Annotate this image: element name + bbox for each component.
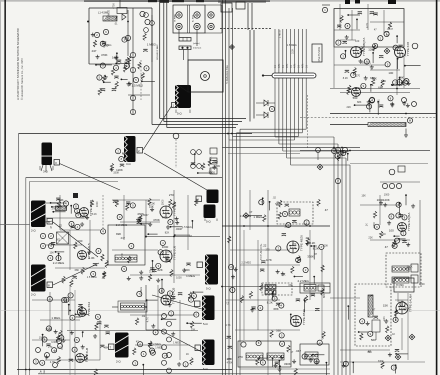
part callout tuner-p35 <box>341 54 346 59</box>
capacitor C-ifstrip61 <box>228 346 232 348</box>
part callout callout 22 <box>103 29 108 34</box>
ground osc-col-g4 <box>401 81 405 85</box>
resistor R-midrow110b5 <box>208 159 211 166</box>
svg-text:330K: 330K <box>284 362 291 366</box>
svg-text:.01: .01 <box>114 23 118 26</box>
junction midcol-lower-j1 <box>121 79 123 81</box>
resistor R-videoC42 <box>172 202 175 209</box>
ground videoC-g2 <box>156 278 160 282</box>
part callout botright-p13 <box>393 317 398 322</box>
svg-text:4.7K: 4.7K <box>225 324 230 327</box>
part callout botmid-p0 <box>162 353 167 358</box>
svg-text:47: 47 <box>325 208 329 212</box>
ground botleft-g33 <box>70 331 74 335</box>
wire sndgrid-0 <box>46 217 84 219</box>
junction soundL-j0 <box>58 253 60 255</box>
ground botmid-g6 <box>168 303 172 307</box>
wire bottomstrip-w8 <box>279 366 281 375</box>
junction rightrow-j11 <box>354 104 356 106</box>
wire tuner-w22 <box>396 36 398 43</box>
bundle cable sleeve <box>272 73 316 78</box>
wire tunergrid-9 <box>351 10 353 40</box>
part callout midrow110a-p4 <box>119 157 124 162</box>
ground midcol-lower-g0 <box>128 82 132 86</box>
resistor R-ifstrip25 <box>228 236 231 243</box>
svg-text:3.3K: 3.3K <box>398 301 403 304</box>
junction ifstrip-j79 <box>262 197 264 199</box>
junction tuner-j8 <box>347 14 349 16</box>
resistor R-botleft34 <box>84 354 87 361</box>
part callout stair_parts-p3 <box>332 148 337 153</box>
junction tuner-j32 <box>392 84 394 86</box>
bundle wire 2 horizontal <box>279 143 338 145</box>
ground ifstrip2-g6 <box>305 242 309 246</box>
tp lead <box>249 215 263 217</box>
shield box horizontal y124.5 <box>152 124 238 126</box>
resistor R-botmid28 <box>191 321 194 328</box>
svg-text:68K: 68K <box>378 85 383 89</box>
ground topleft-lower-g8 <box>126 82 130 86</box>
wire tuner-w4 <box>397 59 399 69</box>
svg-text:68K: 68K <box>323 293 326 298</box>
svg-text:100: 100 <box>309 356 314 360</box>
wire botmid-w16 <box>142 365 144 375</box>
ground rightrow-g5 <box>402 101 406 105</box>
tube V9 audio out <box>398 223 407 232</box>
part callout mast callout <box>322 7 327 12</box>
svg-text:47K: 47K <box>278 63 281 68</box>
long wire y226 <box>222 225 330 227</box>
wire ifgrid-1 <box>240 264 300 266</box>
resistor R-topleft7 <box>123 65 126 72</box>
wire ifstrip-w79 <box>262 198 264 205</box>
dashed drop x176 <box>175 139 177 168</box>
bundle wire 5 vertical <box>290 29 292 165</box>
shield box vertical right x250 <box>249 30 251 122</box>
circle 147 <box>145 19 150 24</box>
wire audgrid-0 <box>360 204 400 206</box>
part callout botleft-p0 <box>56 338 61 343</box>
svg-text:1 MEG: 1 MEG <box>147 43 157 47</box>
part callout tuner-p41 <box>351 72 356 77</box>
part callout botmid-p32 <box>194 312 199 317</box>
bundle wire 6 down <box>228 140 230 375</box>
T7 label box <box>197 262 203 268</box>
svg-text:5-Ω: 5-Ω <box>203 322 208 326</box>
resistor R-videoC14 <box>126 203 129 210</box>
capacitor C-audio18 <box>402 241 406 243</box>
part callout botmid-p17 <box>149 348 154 353</box>
ground bottomstrip-g7 <box>315 360 319 364</box>
wire botleft-w4 <box>68 305 70 316</box>
tube V12 horiz osc <box>76 354 85 363</box>
T10 label box <box>109 344 115 350</box>
ground rightrow-g9 <box>406 103 410 107</box>
svg-text:.001: .001 <box>377 99 380 104</box>
svg-text:H OSC: H OSC <box>396 284 404 287</box>
svg-text:1000: 1000 <box>161 199 164 205</box>
wire rightrow-w11 <box>355 104 370 106</box>
part callout botleft-p39 <box>33 359 38 364</box>
resistor R-botleft6 <box>57 357 60 364</box>
svg-text:1K: 1K <box>290 65 293 68</box>
wire videoC-w35 <box>161 280 163 294</box>
wire videoC-w11 <box>141 223 150 225</box>
tuner dashed border <box>220 28 272 30</box>
svg-text:330K: 330K <box>373 222 376 228</box>
transformer T7 if xfmr <box>205 255 218 285</box>
wire ifstrip-w66 <box>313 354 325 356</box>
ground botright-g14 <box>384 319 388 323</box>
svg-text:Interlock: Interlock <box>193 47 202 50</box>
wire ifstrip-w32 <box>271 293 273 299</box>
section frame vertical x29.5 <box>29 182 31 375</box>
resistor R-ifstrip9 <box>317 199 320 206</box>
coil video box coil <box>115 255 137 262</box>
svg-text:39K: 39K <box>405 307 410 311</box>
junction ifstrip2-j4 <box>310 245 312 247</box>
part callout ifstrip-p12 <box>317 340 322 345</box>
wire osc-col-w2 <box>405 65 421 67</box>
wire brgrid-0 <box>330 297 360 299</box>
part callout botright-p24 <box>391 365 396 370</box>
capacitor C-topleft9 <box>117 60 121 62</box>
ground audio-g1 <box>387 221 391 225</box>
capacitor C-ifstrip41 <box>315 309 319 311</box>
part callout audio-p0 <box>374 224 379 229</box>
part callout botmid-p8 <box>169 311 174 316</box>
pin jack 4 <box>194 23 200 29</box>
svg-text:TYPE 6U8: TYPE 6U8 <box>173 245 177 260</box>
agc box <box>57 232 69 244</box>
ground soundL-g24 <box>85 216 89 220</box>
bundle wire 8 down <box>236 133 238 375</box>
ground midrow110b-g2 <box>212 165 216 169</box>
capacitor C-tuner39 <box>398 45 402 47</box>
coil if coil 2c <box>304 285 316 292</box>
shield box vertical x163.8 <box>163 0 165 122</box>
junction videoC-j35 <box>161 279 163 281</box>
wire videoC-w37 <box>152 261 154 271</box>
wire sndgrid-4 <box>59 195 61 230</box>
det diode <box>122 14 126 20</box>
ground topleft-g0 <box>114 56 118 60</box>
tuner vertical x225.5 <box>225 0 227 375</box>
ground botleft-g5 <box>62 338 66 342</box>
part callout left grid 2 <box>48 233 53 238</box>
if dashed box 2 <box>262 283 292 295</box>
junction main-dot13 <box>405 113 407 115</box>
pin jack 1 <box>176 12 182 18</box>
wire tunergrid-0 <box>334 8 404 10</box>
resistor R-midrow110b0 <box>202 163 205 170</box>
wire midcol-lower-w1 <box>121 78 127 80</box>
wire blgrid-3 <box>45 359 100 361</box>
part callout botright-p11 <box>368 331 373 336</box>
tube V8 2nd if <box>291 316 302 327</box>
transformer T4 flyback <box>31 201 46 228</box>
junction j1 <box>87 21 89 23</box>
wire bottomstrip-w3 <box>259 357 268 359</box>
junction main-dot1 <box>231 133 233 135</box>
small rect top <box>117 8 127 14</box>
ground botright-g8 <box>366 321 370 325</box>
resistor R-botleft21 <box>57 335 60 342</box>
ground botleft-g8 <box>45 355 49 359</box>
junction videoC-j16 <box>170 226 172 228</box>
wire y64 <box>89 63 101 65</box>
part callout audio-p9 <box>402 215 407 220</box>
wire x128 <box>127 10 129 56</box>
wire tunergrid-8 <box>339 4 341 30</box>
svg-text:8.2K: 8.2K <box>267 301 273 305</box>
part callout tuner-p24 <box>393 45 398 50</box>
circle 392-172 <box>389 169 395 175</box>
part callout callout 24 <box>133 77 138 82</box>
svg-text:.22: .22 <box>262 244 266 248</box>
wire jack down <box>178 30 180 38</box>
wire sndgrid-1 <box>60 229 100 231</box>
junction stair_parts-j1 <box>347 153 349 155</box>
wire x174 down <box>173 190 175 283</box>
svg-text:470K: 470K <box>101 53 108 57</box>
terminal strip 1 <box>179 38 191 42</box>
wire ifgrid-7 <box>321 250 323 340</box>
part circle col 1 <box>167 321 172 326</box>
part circle col 2 <box>162 329 167 334</box>
resistor R-ifstrip63 <box>256 358 259 365</box>
wire soundL-w17 <box>51 202 61 204</box>
resistor R-botmid30 <box>190 358 193 365</box>
T3 lead line <box>143 106 172 150</box>
part callout videoC-p19 <box>122 266 127 271</box>
wire y224 left <box>0 224 30 226</box>
part callout botmid-p2 <box>150 350 155 355</box>
wire ts down a <box>183 50 185 61</box>
br inner parts <box>372 320 380 332</box>
svg-text:330K: 330K <box>184 269 190 272</box>
bundle tie wire <box>264 75 272 77</box>
ground botleft-g20 <box>54 330 58 334</box>
junction main-dot6 <box>145 236 147 238</box>
capacitor C-videoC1 <box>152 270 156 272</box>
shield box horizontal y127.5 <box>167 127 236 129</box>
svg-text:270: 270 <box>292 243 297 246</box>
svg-text:82K: 82K <box>116 232 121 236</box>
ground ifstrip-g69 <box>231 275 235 279</box>
resistor R-soundL4 <box>101 254 104 261</box>
wire tunergrid-15 <box>403 57 405 88</box>
svg-text:3.3K: 3.3K <box>89 256 95 260</box>
capacitor C-tuner17 <box>379 56 383 58</box>
resistor R-audio12 <box>373 211 376 218</box>
part circle col 0 <box>162 314 167 319</box>
part callout osc-col-p6 <box>404 79 409 84</box>
capacitor C-ifstrip40 <box>285 204 289 206</box>
svg-text:1000: 1000 <box>39 336 45 339</box>
svg-text:560: 560 <box>353 96 358 100</box>
svg-text:270: 270 <box>266 248 271 251</box>
capacitor C-midcol-lower5 <box>114 76 118 78</box>
junction main-dot2 <box>87 21 89 23</box>
part callout topleft-p8 <box>122 37 127 42</box>
wire botleft-w28 <box>42 335 44 347</box>
wire tunergrid-13 <box>403 9 405 48</box>
svg-text:22K: 22K <box>347 106 352 109</box>
part callout botleft-p12 <box>95 314 100 319</box>
junction videoC-j3 <box>192 220 194 222</box>
part callout tuner-p15 <box>361 83 366 88</box>
resistor R-soundL28 <box>90 200 93 207</box>
wire ifstrip-w26 <box>325 363 327 375</box>
ground ifstrip-g4 <box>280 355 284 359</box>
tube V13 sound out <box>161 295 171 305</box>
resistor R-ifstrip62 <box>287 345 290 352</box>
junction audio-j15 <box>405 194 407 196</box>
wire tunergrid-4 <box>334 64 355 66</box>
resistor R-tuner23 <box>353 68 356 75</box>
svg-text:270: 270 <box>121 253 124 258</box>
part callout ifstrip-p45 <box>304 220 309 225</box>
ground ifstrip-g18 <box>274 363 278 367</box>
wire bottomstrip-w2 <box>272 358 274 367</box>
lead diag A <box>53 222 98 257</box>
junction midrow110b-j3 <box>194 153 196 155</box>
svg-text:470K: 470K <box>153 218 160 222</box>
T4 label box <box>47 219 53 225</box>
bundle wire 9 vertical <box>305 29 307 129</box>
if box 3 circle <box>241 342 246 347</box>
junction tuner-j31 <box>391 84 393 86</box>
part callout left grid 3 <box>40 243 45 248</box>
wire vidgrid-1 <box>120 221 160 223</box>
wire x244 down2 <box>243 230 245 340</box>
part callout botleft-p32 <box>74 337 79 342</box>
part callout soundL-p21 <box>91 271 96 276</box>
svg-text:Red: Red <box>43 369 46 374</box>
capacitor C-ifstrip0 <box>260 269 264 271</box>
page border top <box>0 0 440 2</box>
junction ifstrip-j13 <box>303 299 305 301</box>
svg-text:1K: 1K <box>186 353 189 356</box>
pin jack 6 <box>208 23 214 29</box>
wire brgrid-1 <box>395 299 408 301</box>
svg-text:.001: .001 <box>56 238 61 241</box>
tube V3 sound if <box>80 208 89 217</box>
part circle col 5 <box>167 353 172 358</box>
capacitor C-midrow110a1 <box>120 164 124 166</box>
resistor R-tuner29 <box>388 22 391 29</box>
part callout botright-p10 <box>343 361 348 366</box>
T1 bracket <box>39 166 41 170</box>
wire ifgrid-0 <box>230 249 290 251</box>
transformer T3 sound takeoff <box>175 85 191 108</box>
ground tuner-g37 <box>359 59 363 63</box>
capacitor C-botright1 <box>395 349 399 351</box>
T4 leads <box>46 221 53 222</box>
svg-text:4.7K: 4.7K <box>146 317 149 322</box>
svg-text:120K: 120K <box>322 245 328 248</box>
wire brgrid-4 <box>401 318 403 350</box>
resistor R-soundL33 <box>103 272 106 279</box>
capacitor C-botleft22 <box>69 359 73 361</box>
ground botmid-g25 <box>177 362 181 366</box>
svg-text:SOUND IF AMP: SOUND IF AMP <box>156 44 159 60</box>
part callout videoC-p34 <box>129 243 134 248</box>
wire tuner-w8 <box>348 14 360 16</box>
ground botright-g19 <box>342 363 346 367</box>
resistor R-ifstrip57 <box>306 238 309 245</box>
ground ifstrip-g46 <box>292 359 296 363</box>
br solid box <box>394 278 414 292</box>
wire midcol-lower-w3 <box>142 80 155 82</box>
wire blgrid-5 <box>61 300 63 350</box>
resistor R-botright25 <box>381 362 384 369</box>
junction soundL-j37 <box>70 205 72 207</box>
svg-text:.047: .047 <box>120 237 125 240</box>
wire tuner-w32 <box>393 84 402 86</box>
page left margin line <box>4 0 6 375</box>
svg-text:68K: 68K <box>274 307 279 311</box>
junction botright-j2 <box>395 311 397 313</box>
ground osc-col-g3 <box>407 82 411 86</box>
resistor R3 <box>93 40 96 47</box>
svg-text:68K: 68K <box>357 101 362 104</box>
wire bmgrid-3 <box>179 300 181 360</box>
svg-text:1K: 1K <box>282 65 285 68</box>
ground audio-g3 <box>411 204 415 208</box>
svg-text:2-Ω: 2-Ω <box>116 360 121 364</box>
bundle wire 4 vertical <box>286 29 288 158</box>
part callout left grid 1 <box>40 233 45 238</box>
dashed vert x307 <box>307 95 309 148</box>
part callout if c0 <box>282 211 287 216</box>
junction ifstrip-j32 <box>272 293 274 295</box>
svg-text:47: 47 <box>385 245 389 249</box>
tiny dark box <box>73 193 78 198</box>
svg-text:.047: .047 <box>357 87 362 90</box>
resistor R-videoC29 <box>139 215 142 222</box>
part callout botmid-p11 <box>159 288 164 293</box>
ground stair_parts-g0 <box>340 151 344 155</box>
resistor R-botright9 <box>394 309 397 316</box>
section frame horizontal y181 <box>30 181 119 183</box>
junction audio-j5 <box>398 238 400 240</box>
capacitor C-tuner6 <box>343 41 347 43</box>
part callout botmid-p1 <box>133 361 138 366</box>
wire sndgrid-3 <box>55 267 105 269</box>
resistor R-ifstrip15 <box>279 200 282 207</box>
resistor R-soundL5 <box>105 261 108 268</box>
br vertical x408 <box>407 293 409 360</box>
tuner box outline <box>334 9 404 48</box>
dashed drop x141 <box>140 60 142 100</box>
junction tuner-j22 <box>396 35 398 37</box>
wire sndgrid-6 <box>89 220 91 250</box>
capacitor C-botleft31 <box>97 322 101 324</box>
bundle wire 2 vertical <box>278 29 280 144</box>
part callout ifstrip2-p1 <box>303 267 308 272</box>
ground botright-g6 <box>388 353 392 357</box>
bundle wire 7 down <box>232 136 234 375</box>
junction main-dot12 <box>349 150 351 152</box>
svg-text:2.2 MEG: 2.2 MEG <box>108 10 111 20</box>
ground botmid-g9 <box>171 332 175 336</box>
svg-text:TYPE 4BZ6: TYPE 4BZ6 <box>300 235 304 251</box>
junction main-dot18 <box>69 310 71 312</box>
page border top darker segment <box>218 0 266 2</box>
wire midrow110b-w3 <box>194 154 196 163</box>
